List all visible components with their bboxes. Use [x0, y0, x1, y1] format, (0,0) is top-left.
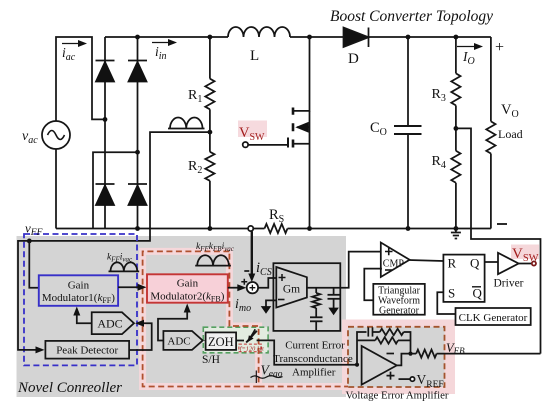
VFB resistor	[416, 350, 436, 358]
VEA op-amp U8	[362, 346, 397, 385]
svg-text:Driver: Driver	[494, 278, 524, 290]
svg-text:Load: Load	[498, 127, 523, 141]
gain modulator2 U3	[147, 274, 228, 302]
ground symbol at output	[455, 229, 457, 233]
RS flip-flop U6	[443, 255, 484, 302]
compensation C (series)	[315, 308, 317, 317]
node: right leg midpoint	[135, 150, 140, 155]
comparator CMP	[381, 243, 410, 278]
minus terminal label	[497, 223, 507, 225]
bridge right leg wire	[137, 37, 139, 229]
VEA feedback network	[357, 332, 367, 365]
svg-text:S: S	[448, 286, 455, 301]
VEA feedback resistor 2	[357, 339, 375, 341]
ADC1 input wire from peak detector	[129, 323, 152, 350]
svg-text:R4: R4	[432, 154, 446, 171]
wire vac top	[56, 37, 103, 122]
wire vFF to peak detector	[18, 241, 36, 350]
red dashed bottom connector pink band	[259, 383, 348, 390]
ADC2 input arrow from ZOH	[204, 338, 211, 344]
svg-text:iin: iin	[155, 44, 167, 62]
inductor L	[228, 27, 290, 37]
svg-text:Q: Q	[473, 286, 483, 301]
minus sign at iCS	[244, 270, 249, 272]
wire GM1 to GM2 with arrow	[118, 286, 140, 288]
capacitor Co	[407, 37, 409, 229]
ADC1 pentagon	[92, 312, 134, 334]
rectified sine symbol at divider	[170, 118, 203, 129]
controller gray background	[17, 236, 347, 397]
svg-text:L: L	[250, 48, 259, 64]
voltage error amplifier pink halo	[342, 320, 455, 395]
red dashed bottom connector	[259, 386, 348, 388]
node: R3/R4 midpoint	[454, 126, 459, 131]
CMP output wire	[408, 260, 443, 261]
node: Co bottom	[406, 226, 411, 231]
svg-text:RS: RS	[269, 207, 284, 225]
S input wire from CLK generator	[437, 292, 455, 314]
svg-text:ZOH: ZOH	[208, 335, 234, 349]
resistor R3	[455, 37, 457, 73]
svg-text:Peak Detector: Peak Detector	[56, 345, 118, 357]
bridge diode D3 (left bottom)	[96, 183, 115, 185]
svg-text:IO: IO	[462, 49, 475, 67]
svg-text:Boost Converter Topology: Boost Converter Topology	[330, 8, 493, 25]
wire switch to Veao	[236, 340, 357, 364]
wire vFF from divider down to controller	[29, 132, 210, 241]
node: vFF junction	[27, 239, 32, 244]
bridge diode D1 (left top)	[96, 60, 115, 62]
node: mosfet drain on rail	[307, 35, 312, 40]
wire right-leg midpoint to x93	[93, 152, 138, 228]
svg-text:CMP: CMP	[383, 259, 405, 270]
node: left leg midpoint	[103, 117, 108, 122]
resistor R4	[451, 151, 460, 183]
wire R2 to rail	[209, 181, 211, 229]
VSW gate label pink halo	[238, 121, 267, 138]
svg-text:VFB: VFB	[446, 341, 465, 356]
kFF ivac humps symbol	[111, 262, 138, 271]
node: R4 bottom / ground	[454, 226, 459, 231]
wire rail to R1	[209, 37, 211, 79]
node: R1 top on rail	[208, 35, 213, 40]
wire R1 to node	[209, 109, 211, 152]
mosfet Q1	[293, 37, 310, 111]
resistor RS	[265, 224, 288, 233]
driver triangle U7	[498, 253, 519, 274]
kFF kFB ivac humps symbol	[197, 255, 229, 265]
sampling switch	[246, 331, 257, 343]
top DC rail	[105, 36, 491, 38]
iin arrow	[152, 42, 171, 44]
gain modulator1 U2	[39, 275, 118, 306]
driver output wire	[519, 263, 532, 265]
svg-text:iac: iac	[62, 45, 76, 63]
iac arrow	[62, 43, 81, 45]
svg-text:Transconductance: Transconductance	[273, 353, 353, 365]
Gm output wire to CMP	[307, 252, 382, 288]
svg-text:+: +	[495, 39, 504, 56]
svg-text:R3: R3	[432, 87, 446, 104]
Io arrow	[457, 46, 477, 48]
node: divider midpoint	[208, 130, 213, 135]
svg-text:Amplifier: Amplifier	[292, 366, 336, 378]
svg-text:R1: R1	[188, 88, 202, 105]
svg-text:CO: CO	[370, 120, 387, 138]
sample-hold green dashed box	[203, 327, 268, 353]
imo arrow into summing node	[228, 287, 240, 289]
peak detector U4	[45, 341, 129, 359]
plus sign at imo input	[241, 279, 247, 285]
mosfet gate wire and VSW terminal	[248, 144, 288, 146]
node: mosfet source on rail	[307, 226, 312, 231]
VSW label pink halo (top right)	[511, 245, 539, 260]
resistor R1	[205, 79, 214, 110]
bottom rail	[56, 228, 491, 230]
svg-text:CLK Generator: CLK Generator	[459, 312, 528, 324]
node: right leg top	[135, 35, 140, 40]
Gm minus input to ground	[266, 300, 276, 303]
VREF terminal	[399, 378, 411, 380]
svg-text:ADC: ADC	[97, 317, 122, 331]
CMP minus input wire from TWG	[364, 269, 382, 301]
CLK generator box	[456, 308, 531, 325]
bridge diode D4 (right bottom)	[128, 183, 147, 185]
ADC2 pentagon	[163, 331, 202, 350]
ADC1 output wire to GM1	[77, 313, 92, 324]
Gm trapezoid U5	[276, 267, 307, 308]
compensation C2 to ground	[333, 288, 335, 295]
svg-text:R: R	[448, 256, 457, 271]
Q output wire	[485, 261, 498, 263]
svg-text:Gm: Gm	[283, 284, 300, 296]
resistor R2	[205, 152, 214, 181]
svg-text:Current Error: Current Error	[285, 340, 345, 352]
svg-text:vFF: vFF	[25, 221, 43, 239]
svg-text:Gain: Gain	[177, 278, 199, 290]
svg-text:f=120 Hz: f=120 Hz	[240, 345, 265, 352]
svg-text:R2: R2	[188, 159, 202, 176]
svg-text:Gain: Gain	[68, 280, 90, 292]
f=120Hz dashed box	[239, 344, 262, 352]
load resistor	[490, 37, 492, 121]
wire summing node to Gm +	[258, 278, 276, 288]
node: Co top	[406, 35, 411, 40]
VEA input wire and node	[355, 363, 359, 367]
Veao waveform axis	[255, 371, 257, 384]
svg-text:Novel Conreoller: Novel Conreoller	[17, 380, 122, 396]
current error transconductance amplifier box	[273, 263, 340, 331]
svg-text:Generator: Generator	[379, 306, 420, 317]
diode D	[344, 28, 369, 48]
triangular waveform generator box	[373, 284, 425, 315]
wire vFF to gain modulator1	[29, 241, 39, 288]
svg-text:D: D	[348, 51, 359, 67]
ZOH block	[206, 332, 237, 350]
iCS tap wire (thick, arrow down)	[251, 231, 253, 276]
svg-text:Q: Q	[470, 256, 480, 271]
ac source vac	[42, 121, 70, 149]
VEA output wire	[397, 354, 416, 366]
VEA brown dashed box	[348, 327, 445, 387]
red dashed box (feedback section)	[143, 251, 259, 386]
svg-text:VO: VO	[501, 102, 519, 120]
node: right leg bottom	[135, 226, 140, 231]
svg-text:ADC: ADC	[167, 336, 190, 348]
blue dashed box (feed-forward section)	[24, 234, 137, 365]
node: iCS tap (open circle)	[248, 226, 253, 231]
bridge left leg wire	[104, 37, 106, 229]
bridge diode D2 (right top)	[128, 60, 147, 62]
ADC2 output wire to GM2	[158, 310, 187, 341]
svg-text:S/H: S/H	[202, 354, 220, 366]
node: R3 top	[454, 35, 459, 40]
svg-text:Voltage Error Amplifier: Voltage Error Amplifier	[346, 389, 449, 401]
summing node circle	[247, 282, 258, 293]
VFB sense wire from divider	[456, 128, 541, 353]
svg-text:vac: vac	[22, 129, 38, 146]
node: R2 bottom	[208, 226, 213, 231]
compensation R	[315, 288, 317, 293]
voltage error amplifier gray panel	[348, 327, 445, 387]
wire vac bottom	[55, 149, 57, 229]
red dashed box pink band	[143, 251, 259, 386]
